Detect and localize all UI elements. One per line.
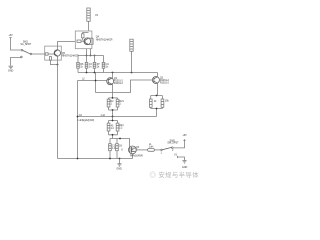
node dot bbox=[112, 120, 114, 122]
node dot bbox=[112, 116, 114, 118]
wire lower throw SW1 bbox=[11, 58, 21, 66]
wire Q2 collector bbox=[157, 73, 159, 77]
inductor L1 bbox=[148, 149, 155, 152]
svg-text:R1031-2: R1031-2 bbox=[160, 82, 170, 85]
svg-text:2.2: 2.2 bbox=[119, 127, 123, 130]
node dot bbox=[112, 97, 114, 99]
svg-text:NHDTA114ACR: NHDTA114ACR bbox=[96, 39, 113, 42]
wire V1 to GND right bbox=[178, 157, 185, 160]
svg-text:1k: 1k bbox=[97, 65, 100, 68]
wire ground rail bottom bbox=[58, 158, 133, 160]
switch SW2 SW_SPST bbox=[161, 147, 173, 151]
wire Q1 emitter bbox=[112, 85, 114, 98]
wire V2 to Q4 bbox=[88, 21, 90, 31]
wire pair C bottom bbox=[151, 107, 163, 116]
wire Q4 leads to network rail bbox=[87, 49, 91, 56]
svg-text:1: 1 bbox=[119, 102, 121, 105]
svg-text:PMV16XNR: PMV16XNR bbox=[130, 155, 143, 158]
wire pair B top tee bbox=[110, 139, 122, 144]
svg-text:1uH: 1uH bbox=[149, 146, 154, 149]
resistor R2 bbox=[107, 99, 110, 107]
transistor Q2 bbox=[152, 77, 159, 84]
svg-text:+5V: +5V bbox=[8, 34, 13, 37]
svg-text:C6: C6 bbox=[119, 145, 123, 148]
svg-text:SA_SPDT: SA_SPDT bbox=[20, 43, 31, 46]
wire W1 rail bbox=[78, 72, 158, 74]
wire L1 to SW2 bbox=[154, 149, 160, 151]
svg-text:NHDTA114ACR: NHDTA114ACR bbox=[62, 54, 79, 57]
node junction Q5 emitter bbox=[57, 64, 59, 66]
resistor R24 bbox=[116, 123, 119, 131]
ground GND left bbox=[9, 66, 14, 68]
node dot bbox=[112, 134, 114, 136]
capacitor C7 bbox=[161, 99, 164, 107]
node dot bbox=[94, 72, 96, 74]
pin tick V1 bbox=[177, 156, 179, 158]
resistor V2 top bbox=[87, 8, 90, 21]
svg-text:1.2: 1.2 bbox=[111, 127, 115, 130]
resistor R6 bbox=[77, 56, 80, 73]
node dot bbox=[94, 55, 96, 57]
svg-text:◎ 安规与半导体: ◎ 安规与半导体 bbox=[150, 170, 200, 179]
wire Q2 emitter bbox=[157, 83, 159, 95]
resistor pair P1 top tee bbox=[109, 98, 118, 99]
wire Q5 emitter down to ground rail bbox=[57, 56, 59, 158]
wire pair A bottom tee bbox=[109, 131, 118, 139]
node dot bbox=[109, 158, 111, 160]
node dot bbox=[119, 138, 121, 140]
ground GND right bbox=[182, 161, 186, 163]
wire SW2 to +5V bbox=[173, 140, 184, 148]
node dot bbox=[86, 55, 88, 57]
svg-text:1k: 1k bbox=[154, 100, 157, 103]
svg-text:6: 6 bbox=[121, 149, 123, 152]
wire left tall bbox=[77, 81, 79, 159]
transistor Q3 PMOS bbox=[129, 146, 137, 154]
svg-text:1k: 1k bbox=[80, 65, 83, 68]
svg-text:GND: GND bbox=[116, 167, 122, 170]
wire P1 bottom tee bbox=[109, 107, 118, 117]
svg-text:1: 1 bbox=[110, 102, 112, 105]
ground GND bottom bbox=[117, 159, 121, 167]
svg-text:V1: V1 bbox=[174, 154, 178, 157]
node dot bbox=[77, 116, 79, 118]
node +5V left flag bbox=[9, 38, 11, 39]
svg-text:1 uF: 1 uF bbox=[100, 114, 105, 117]
transistor Q5 digital NPN box bbox=[45, 46, 62, 60]
watermark logo and text bbox=[150, 170, 200, 179]
wire Q1 base feed vertical bbox=[95, 73, 97, 93]
node dot bbox=[112, 72, 114, 74]
wire Q3 drain to L1 bbox=[136, 149, 148, 151]
node dot bbox=[90, 55, 92, 57]
transistor Q4 digital NPN box bbox=[75, 31, 93, 49]
wire V3 down to W1 bbox=[131, 51, 133, 72]
resistor R3 bbox=[107, 123, 110, 131]
svg-text:1 uF(E)(A2)(CR): 1 uF(E)(A2)(CR) bbox=[77, 119, 94, 122]
node dot bbox=[156, 108, 158, 110]
node dot bbox=[77, 158, 79, 160]
wire Q1 collector bbox=[112, 73, 114, 78]
resistor R25 bbox=[116, 144, 119, 151]
resistor R7 bbox=[93, 56, 96, 73]
node dot bbox=[95, 80, 97, 82]
wire cross couple to Q2 base bbox=[96, 80, 153, 93]
svg-text:GND: GND bbox=[182, 166, 188, 169]
node dot bbox=[112, 109, 114, 111]
wire pair B bottoms bbox=[110, 151, 117, 159]
wire SW1 common to Q5 bbox=[32, 53, 45, 55]
capacitor C1 bbox=[109, 144, 112, 151]
wire Q5 internal resistor return bbox=[50, 60, 57, 64]
svg-text:SW_SPST: SW_SPST bbox=[167, 142, 179, 145]
resistor R9 bbox=[149, 99, 152, 107]
capacitor C3 bbox=[85, 56, 88, 73]
svg-text:GND: GND bbox=[8, 70, 14, 73]
node dot bbox=[156, 95, 158, 97]
svg-text:1n: 1n bbox=[89, 65, 92, 68]
wire W2 long bbox=[78, 116, 157, 118]
svg-text:+5V: +5V bbox=[182, 134, 187, 137]
wire Q5 collector to Q4 base bbox=[58, 42, 76, 50]
svg-text:1: 1 bbox=[161, 151, 163, 154]
node dot bbox=[119, 158, 121, 160]
transistor Q1 bbox=[107, 78, 114, 85]
node dot bbox=[131, 72, 133, 74]
wire pair A top tee bbox=[109, 117, 118, 124]
resistor R21 bbox=[116, 99, 119, 107]
wire gate feed Q3 bbox=[122, 139, 130, 148]
node dot bbox=[86, 72, 88, 74]
capacitor C4 bbox=[102, 56, 105, 73]
resistor V3 mid bbox=[130, 39, 133, 51]
switch SW1 SA_SPDT bbox=[21, 49, 32, 57]
wire from +5V to SW1 throw 1 bbox=[11, 39, 22, 51]
svg-text:V2: V2 bbox=[95, 14, 99, 17]
svg-text:Q3: Q3 bbox=[136, 146, 140, 149]
svg-text:R1031-2: R1031-2 bbox=[114, 82, 124, 85]
svg-text:1n: 1n bbox=[106, 65, 109, 68]
wire L2 net bbox=[78, 80, 107, 82]
svg-text:2: 2 bbox=[172, 149, 174, 152]
svg-text:L2: L2 bbox=[82, 77, 85, 80]
svg-text:10k: 10k bbox=[165, 99, 170, 102]
wire network top rail bbox=[78, 55, 104, 57]
resistor pair C top tee bbox=[151, 96, 163, 100]
wire Q3 source to rail bbox=[132, 154, 134, 159]
node +5V right flag bbox=[183, 139, 185, 140]
